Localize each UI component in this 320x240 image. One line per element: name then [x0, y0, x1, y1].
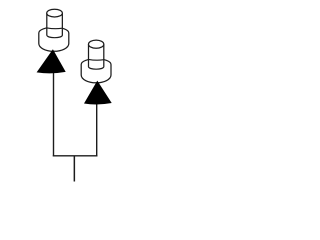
wire: left stem vertical [53, 72, 55, 156]
nozzle 1 (left): small cylinder body [47, 13, 63, 35]
nozzle 1 (left): cylinder bottom arc inside washer [47, 35, 63, 37]
arrowhead 1 (left): filled cone pointing up [37, 49, 66, 73]
nozzle 2 (right): cylinder bottom arc inside washer [89, 67, 104, 69]
nozzle 2 (right): washer rim line crossing cylinder [89, 58, 104, 61]
arrowhead 2 (right): filled cone pointing up [84, 81, 112, 105]
nozzle 1 (left): washer rim line crossing cylinder [47, 27, 63, 30]
nozzle 1 (left): cylinder top ellipse [47, 9, 63, 17]
nozzle 1 (left): washer/base silhouette [39, 27, 69, 51]
wire: right stem vertical [96, 104, 98, 157]
nozzle 2 (right): washer/base silhouette [81, 59, 111, 83]
wire: center drop line [73, 156, 75, 182]
nozzle 2 (right): small cylinder body [89, 44, 104, 67]
nozzle 2 (right): cylinder top ellipse [89, 40, 104, 48]
wire: bottom horizontal joining both stems [53, 155, 98, 157]
